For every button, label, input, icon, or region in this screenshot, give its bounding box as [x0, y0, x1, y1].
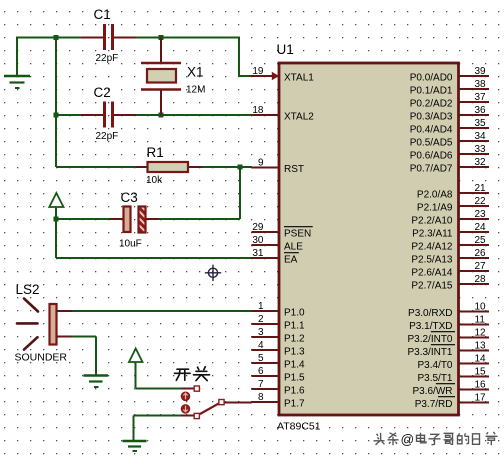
- svg-text:29: 29: [252, 222, 264, 233]
- svg-text:AT89C51: AT89C51: [277, 421, 321, 433]
- wire sounder to P1.0: [71, 310, 252, 312]
- pin 19 (XTAL1): [252, 66, 315, 84]
- svg-text:X1: X1: [187, 65, 204, 80]
- pin 27 (P2.6/A14): [411, 261, 489, 279]
- svg-text:5: 5: [258, 353, 264, 364]
- svg-text:14: 14: [475, 354, 487, 365]
- svg-text:P2.5/A13: P2.5/A13: [411, 255, 453, 266]
- power arrow (switch net): [129, 349, 143, 389]
- svg-text:C1: C1: [94, 7, 111, 22]
- svg-text:R1: R1: [147, 145, 164, 160]
- pin 30 (ALE): [252, 235, 304, 253]
- svg-text:P3.1/TXD: P3.1/TXD: [409, 321, 452, 332]
- svg-text:C3: C3: [121, 190, 138, 205]
- label 开关 (switch): [175, 367, 210, 381]
- svg-text:P0.3/AD3: P0.3/AD3: [410, 112, 453, 123]
- svg-text:P1.6: P1.6: [284, 386, 305, 397]
- svg-text:P3.4/T0: P3.4/T0: [417, 360, 452, 371]
- svg-text:ALE: ALE: [284, 242, 303, 253]
- svg-text:C2: C2: [94, 85, 111, 100]
- wire down to EA row: [55, 219, 57, 258]
- wire switch bottom terminal to ground: [134, 416, 182, 441]
- ground (sounder): [84, 376, 109, 388]
- svg-text:21: 21: [475, 183, 487, 194]
- svg-text:P2.1/A9: P2.1/A9: [417, 203, 453, 214]
- pin 1 (P1.0): [252, 301, 306, 319]
- svg-text:P1.7: P1.7: [284, 399, 305, 410]
- svg-text:36: 36: [475, 105, 487, 116]
- svg-text:30: 30: [252, 235, 264, 246]
- origin marker (crosshair): [205, 265, 221, 281]
- svg-text:2: 2: [258, 314, 264, 325]
- svg-text:24: 24: [475, 222, 487, 233]
- svg-text:P0.6/AD6: P0.6/AD6: [410, 151, 453, 162]
- pin 37 (P0.2/AD2): [410, 92, 489, 110]
- pin 26 (P2.5/A13): [411, 248, 489, 266]
- svg-text:38: 38: [475, 79, 487, 90]
- svg-text:10: 10: [475, 302, 487, 313]
- pin 32 (P0.7/AD7): [410, 157, 489, 175]
- pin 21 (P2.0/A8): [417, 183, 489, 201]
- watermark 头条@电子哥的日常: [374, 433, 399, 446]
- svg-text:P1.3: P1.3: [284, 347, 305, 358]
- svg-text:P3.6/WR: P3.6/WR: [412, 386, 452, 397]
- svg-text:RST: RST: [284, 164, 304, 175]
- svg-text:P3.3/INT1: P3.3/INT1: [407, 347, 452, 358]
- svg-text:32: 32: [475, 157, 487, 168]
- svg-text:16: 16: [475, 380, 487, 391]
- svg-text:19: 19: [252, 66, 264, 77]
- svg-text:XTAL2: XTAL2: [284, 112, 314, 123]
- svg-text:31: 31: [252, 248, 264, 259]
- pin 12 (P3.2/INT0): [407, 328, 489, 346]
- wire RST row: [56, 166, 252, 168]
- svg-text:P0.5/AD5: P0.5/AD5: [410, 138, 453, 149]
- pin 33 (P0.6/AD6): [410, 144, 489, 162]
- node junction at (240,167): [238, 165, 243, 170]
- pin 2 (P1.1): [252, 314, 306, 332]
- node junction at (161,38): [159, 35, 164, 40]
- pin 34 (P0.5/AD5): [410, 131, 489, 149]
- svg-text:P1.1: P1.1: [284, 321, 305, 332]
- svg-text:P2.3/A11: P2.3/A11: [412, 229, 453, 240]
- svg-text:P0.7/AD7: P0.7/AD7: [410, 164, 453, 175]
- resistor R1: [136, 162, 202, 172]
- wire left vertical bus: [55, 38, 57, 168]
- svg-text:P3.2/INT0: P3.2/INT0: [407, 334, 452, 345]
- svg-text:LS2: LS2: [16, 282, 40, 297]
- node junction at (161,115): [159, 113, 164, 118]
- wire power to switch top terminal: [136, 388, 182, 390]
- svg-text:13: 13: [475, 341, 487, 352]
- svg-text:EA: EA: [284, 255, 298, 266]
- pin 13 (P3.3/INT1): [407, 341, 489, 359]
- pin 15 (P3.5/T1): [417, 367, 489, 385]
- svg-text:39: 39: [475, 66, 487, 77]
- svg-text:34: 34: [475, 131, 487, 142]
- svg-text:SOUNDER: SOUNDER: [15, 352, 68, 364]
- svg-text:35: 35: [475, 118, 487, 129]
- svg-text:26: 26: [475, 248, 487, 259]
- switch actuator circle up: [181, 392, 191, 402]
- svg-text:17: 17: [475, 393, 487, 404]
- svg-text:1: 1: [258, 301, 264, 312]
- pin 29 (PSEN): [252, 222, 313, 240]
- svg-text:@: @: [401, 432, 415, 447]
- node junction at (56,38): [54, 35, 59, 40]
- svg-text:22pF: 22pF: [96, 53, 119, 64]
- svg-text:P3.0/RXD: P3.0/RXD: [408, 308, 452, 319]
- svg-text:6: 6: [258, 366, 264, 377]
- pin 6 (P1.5): [252, 366, 306, 384]
- svg-text:P1.2: P1.2: [284, 334, 305, 345]
- svg-text:22pF: 22pF: [96, 131, 119, 142]
- pin 22 (P2.1/A9): [417, 196, 489, 214]
- pin 36 (P0.3/AD3): [410, 105, 489, 123]
- svg-text:P2.6/A14: P2.6/A14: [411, 268, 453, 279]
- wire net XTAL2/C2 row: [56, 114, 252, 116]
- svg-text:P2.7/A15: P2.7/A15: [411, 281, 453, 292]
- svg-text:P2.4/A12: P2.4/A12: [411, 242, 453, 253]
- svg-text:U1: U1: [277, 42, 294, 57]
- svg-text:3: 3: [258, 327, 264, 338]
- wire from RST node down to C3: [239, 167, 241, 219]
- pin 18 (XTAL2): [252, 105, 315, 123]
- svg-text:P0.1/AD1: P0.1/AD1: [410, 86, 453, 97]
- svg-text:P0.2/AD2: P0.2/AD2: [410, 99, 453, 110]
- crystal X1: [141, 38, 181, 116]
- pin 4 (P1.3): [252, 340, 306, 358]
- pin 10 (P3.0/RXD): [408, 302, 489, 320]
- pin 16 (P3.6/WR): [412, 380, 489, 398]
- svg-text:15: 15: [475, 367, 487, 378]
- pin 14 (P3.4/T0): [417, 354, 489, 372]
- pin 7 (P1.6): [252, 379, 306, 397]
- svg-text:P2.2/A10: P2.2/A10: [411, 216, 453, 227]
- svg-text:10k: 10k: [146, 175, 163, 186]
- pin 35 (P0.4/AD4): [410, 118, 489, 136]
- svg-text:22: 22: [475, 196, 487, 207]
- svg-text:P0.4/AD4: P0.4/AD4: [410, 125, 453, 136]
- svg-text:7: 7: [258, 379, 264, 390]
- op-amp/IC U1 AT89C51 body: [279, 63, 459, 415]
- svg-text:28: 28: [475, 274, 487, 285]
- wire net XTAL1/C1 row: [16, 38, 252, 77]
- pin 23 (P2.2/A10): [411, 209, 489, 227]
- pin 28 (P2.7/A15): [411, 274, 489, 292]
- capacitor C2: [81, 102, 136, 128]
- wire EA row: [56, 257, 252, 259]
- svg-text:8: 8: [258, 392, 264, 403]
- ground (top-left, crystal caps net): [4, 38, 30, 89]
- node junction at (56,115): [54, 113, 59, 118]
- svg-text:12: 12: [475, 328, 487, 339]
- svg-text:XTAL1: XTAL1: [284, 73, 314, 84]
- svg-text:25: 25: [475, 235, 487, 246]
- ground (switch): [123, 441, 147, 451]
- pin 9 (RST): [252, 158, 305, 176]
- pin 3 (P1.2): [252, 327, 306, 345]
- switch (button): [181, 386, 252, 419]
- svg-text:P1.4: P1.4: [284, 360, 305, 371]
- svg-text:23: 23: [475, 209, 487, 220]
- svg-text:12M: 12M: [186, 85, 205, 96]
- svg-text:9: 9: [258, 158, 264, 169]
- pin 39 (P0.0/AD0): [410, 66, 489, 84]
- sounder LS2: [17, 299, 72, 350]
- svg-text:18: 18: [252, 105, 264, 116]
- svg-text:P1.5: P1.5: [284, 373, 305, 384]
- pin 31 (EA): [252, 248, 299, 266]
- svg-text:37: 37: [475, 92, 487, 103]
- svg-text:P0.0/AD0: P0.0/AD0: [410, 73, 453, 84]
- pin 8 (P1.7): [252, 392, 306, 410]
- pin 38 (P0.1/AD1): [410, 79, 489, 97]
- power arrow (C3 reset net): [49, 193, 63, 219]
- wire C3 row: [56, 218, 240, 220]
- svg-text:11: 11: [475, 315, 486, 326]
- pin 25 (P2.4/A12): [411, 235, 489, 253]
- svg-text:10uF: 10uF: [119, 239, 142, 250]
- wire sounder bottom to ground: [71, 337, 96, 375]
- svg-text:P2.0/A8: P2.0/A8: [417, 190, 453, 201]
- svg-text:4: 4: [258, 340, 264, 351]
- svg-text:27: 27: [475, 261, 487, 272]
- pin 24 (P2.3/A11): [412, 222, 489, 240]
- svg-text:33: 33: [475, 144, 487, 155]
- node junction at (56,219): [54, 217, 59, 222]
- pin 11 (P3.1/TXD): [409, 315, 489, 333]
- svg-text:P1.0: P1.0: [284, 308, 305, 319]
- capacitor C1: [81, 24, 136, 50]
- svg-text:P3.7/RD: P3.7/RD: [415, 399, 453, 410]
- pin 5 (P1.4): [252, 353, 306, 371]
- capacitor C3 (electrolytic): [110, 207, 159, 233]
- svg-text:P3.5/T1: P3.5/T1: [417, 373, 452, 384]
- switch actuator circle down: [181, 404, 191, 414]
- pin 17 (P3.7/RD): [415, 393, 489, 411]
- svg-text:PSEN: PSEN: [284, 229, 311, 240]
